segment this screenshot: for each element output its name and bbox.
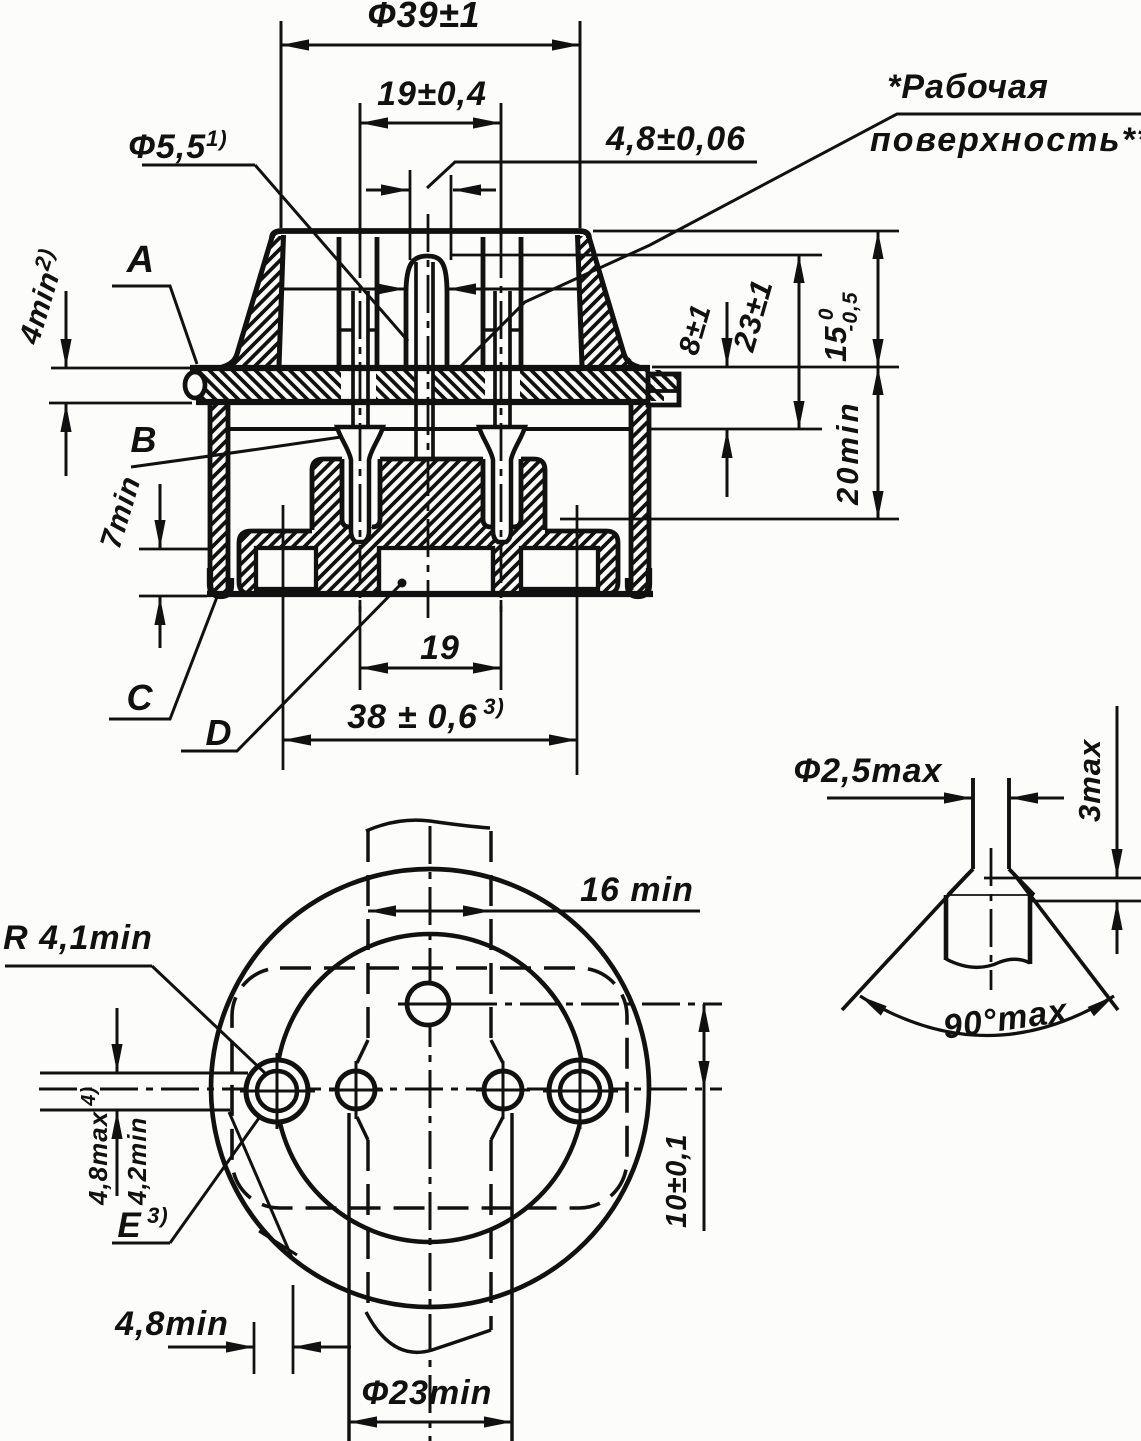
svg-text:поверхность**: поверхность**	[870, 121, 1141, 159]
flange bottom surface line	[196, 399, 650, 405]
centerline main axis section	[427, 214, 430, 618]
cap inner left wall	[279, 235, 284, 366]
detail pin sides	[971, 778, 975, 869]
dimension 19±0,4	[360, 122, 501, 125]
detail pin shoulders	[948, 869, 973, 895]
base plate hatched	[239, 531, 618, 594]
platform slot left white	[342, 456, 380, 527]
pin shank left	[351, 291, 355, 427]
pin hole right bottom view	[484, 1071, 522, 1109]
base plate outline	[239, 531, 618, 594]
centerline left pin	[359, 103, 362, 240]
dimension Ф39±1	[280, 21, 283, 228]
insulator platform hatched	[312, 459, 545, 544]
svg-text:Ф23min: Ф23min	[362, 1374, 493, 1412]
main vertical centerline	[429, 826, 432, 1441]
svg-text:10±0,1: 10±0,1	[661, 1134, 693, 1229]
dashed key rectangle	[232, 968, 627, 1208]
flange hatched band	[196, 370, 664, 401]
center post dome and walls	[406, 256, 447, 367]
svg-text:R 4,1min: R 4,1min	[3, 919, 153, 957]
extension lines right side	[593, 230, 899, 233]
contact rivet left	[337, 427, 383, 542]
flange hole gap left pin	[341, 368, 376, 403]
window left white	[256, 548, 316, 589]
contact rivet right	[479, 427, 525, 542]
inner circle	[276, 934, 584, 1242]
slot lines left mounting	[40, 1072, 248, 1075]
mounting hole left	[246, 1060, 308, 1122]
flange hole gap center slot	[416, 368, 432, 403]
window center outline	[379, 548, 493, 594]
window right white	[521, 548, 598, 589]
skirt hatched left wall	[210, 403, 228, 591]
outer circle	[211, 869, 649, 1307]
centerline right pin	[500, 103, 503, 240]
svg-text:C: C	[127, 677, 154, 718]
svg-text:*Рабочая: *Рабочая	[887, 68, 1049, 106]
cap outer right wall	[589, 237, 639, 367]
flange rolled left end	[185, 372, 205, 398]
svg-text:4,8min: 4,8min	[114, 1305, 229, 1343]
window right outline	[521, 548, 598, 589]
skirt right foot	[628, 568, 649, 596]
detail body bottom wave	[946, 959, 1030, 967]
svg-text:Ф39±1: Ф39±1	[368, 0, 481, 35]
cap outer left wall	[222, 237, 272, 367]
cap hatched right wall	[577, 236, 637, 366]
flange hole gap right pin	[485, 368, 520, 403]
svg-text:Ф2,5max: Ф2,5max	[794, 752, 944, 790]
detail centerline	[990, 848, 993, 990]
main horizontal centerline	[39, 1088, 722, 1091]
svg-text:19±0,4: 19±0,4	[377, 75, 487, 113]
svg-text:D: D	[206, 712, 233, 753]
skirt right wall outlines	[647, 403, 652, 592]
flange top surface line	[190, 365, 650, 371]
glass band left dashed line	[366, 831, 369, 1040]
top hole centerline extension	[459, 1003, 722, 1006]
skirt hatched right wall	[631, 403, 649, 591]
window left outline	[256, 548, 316, 589]
skirt left wall outlines	[208, 403, 213, 592]
platform slot right outline	[483, 459, 521, 527]
mounting hole right	[549, 1060, 611, 1122]
detail angle arc	[860, 996, 1114, 1036]
glass band top wave	[366, 820, 490, 831]
pin shank right	[493, 291, 497, 427]
svg-text:4,8±0,06: 4,8±0,06	[605, 120, 746, 158]
svg-text:19: 19	[420, 629, 460, 667]
arrows at post walls	[284, 288, 404, 291]
window center white	[379, 548, 493, 592]
svg-text:3max: 3max	[1072, 738, 1107, 822]
glass band bottom wave	[366, 1312, 491, 1352]
skirt left foot	[210, 568, 231, 596]
detail cone lines	[842, 874, 968, 1010]
platform slot right white	[483, 456, 521, 527]
platform slot left outline	[342, 459, 380, 527]
cap inner right wall	[578, 235, 583, 366]
platform outline	[312, 459, 545, 530]
detail body	[944, 895, 949, 960]
svg-text:16 min: 16 min	[580, 871, 694, 909]
glass band right dashed line	[489, 831, 492, 1040]
svg-text:20min: 20min	[830, 400, 865, 506]
svg-text:4,2min: 4,2min	[122, 1117, 152, 1206]
center post slot lines	[414, 262, 418, 459]
svg-text:A: A	[126, 239, 155, 281]
bottom edge line	[207, 591, 653, 597]
cap top edge	[272, 231, 589, 238]
inner visible edge line	[228, 427, 631, 431]
bulb side lines	[347, 1113, 350, 1441]
pin hole right walls	[481, 237, 486, 367]
top small hole	[407, 983, 449, 1025]
flange right end tab	[648, 374, 679, 392]
pin hole tick bars	[339, 328, 353, 331]
cap hatched left wall	[224, 236, 284, 366]
pin hole left walls	[337, 237, 342, 367]
pin hole left bottom view	[337, 1071, 375, 1109]
extension lines bottom of section	[282, 505, 285, 770]
svg-text:B: B	[131, 419, 158, 460]
